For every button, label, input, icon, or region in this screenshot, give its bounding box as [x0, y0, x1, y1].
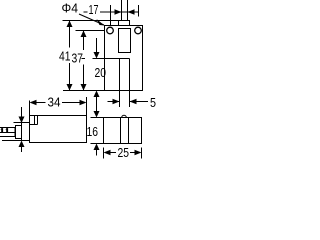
plunger pin right line — [127, 0, 129, 21]
svg-text:16: 16 — [87, 125, 99, 139]
dim 16 upper stem — [96, 104, 98, 113]
dim 41 upper stem — [69, 21, 71, 48]
dim 17 left arrow — [115, 9, 122, 14]
dash between phi4 and 17 — [84, 11, 88, 13]
dim 20 upper arrow — [94, 52, 100, 59]
dim 11 upper stem — [21, 107, 23, 119]
dim 25 right extension — [141, 148, 143, 159]
dim 25 left line — [110, 152, 116, 154]
dim 17 right arrow — [128, 9, 135, 14]
front view body — [105, 26, 143, 91]
dim 25 right arrow — [135, 150, 142, 155]
dim 34 right arrow — [80, 100, 87, 105]
dim 20 lower arrow — [94, 91, 100, 98]
upper slot window — [119, 29, 131, 53]
dim 34 left arrow — [30, 100, 37, 105]
dim 37 top arrow — [81, 31, 87, 38]
dim 11 lower stem — [21, 146, 23, 153]
dim 37 upper stem — [83, 31, 85, 51]
dim 34 right extension — [86, 97, 88, 123]
slot top extension dash near 37 — [82, 58, 86, 60]
dim 5 right line — [130, 101, 149, 103]
svg-text:Φ4: Φ4 — [62, 2, 79, 16]
svg-text:20: 20 — [95, 66, 107, 80]
dim 11 lower arrow — [19, 141, 25, 148]
side view window divider — [34, 116, 36, 125]
dim 41 lower stem — [69, 63, 71, 91]
svg-text:41: 41 — [59, 50, 71, 64]
svg-text:25: 25 — [118, 146, 130, 160]
dim 16 lower stem — [96, 149, 98, 156]
slot top extension line — [93, 58, 120, 60]
dim 16 bottom extension — [91, 143, 104, 145]
hole centerline extension — [76, 30, 105, 32]
dim 25 left arrow — [104, 150, 111, 155]
mounting hole right — [135, 27, 142, 34]
svg-text:37: 37 — [72, 52, 84, 66]
body bottom extension line — [63, 90, 105, 92]
dim 5 left line — [108, 101, 120, 103]
bottom view slot left line — [120, 118, 122, 144]
dim 34 left line — [36, 102, 46, 104]
svg-text:17: 17 — [89, 3, 99, 17]
plunger collar — [119, 21, 130, 26]
dim 11 bottom extension — [2, 140, 21, 142]
mounting hole left — [107, 27, 114, 34]
phi4 leader line — [79, 14, 104, 25]
dim 5 left arrow — [113, 99, 120, 104]
dim 41 top arrow — [67, 21, 73, 28]
side view window bottom line — [30, 124, 38, 126]
dim 25 right line — [130, 152, 135, 154]
side view body — [30, 116, 87, 143]
dim 5 right extension — [129, 91, 131, 108]
dim 17 left extension — [110, 5, 112, 26]
dim 16 top extension — [91, 117, 104, 119]
collar top extension line — [63, 20, 119, 22]
dim 34 left extension — [29, 101, 31, 116]
dim 5 right arrow — [130, 99, 137, 104]
plunger pin left line — [121, 0, 123, 21]
dim 25 left extension — [103, 148, 105, 159]
label 11 — [1, 128, 9, 132]
svg-text:5: 5 — [150, 96, 156, 110]
dim 20 lower stem — [96, 95, 98, 106]
dim 41 bottom arrow — [67, 84, 73, 91]
phi4 leader arrowhead — [97, 19, 105, 26]
dim 16 upper arrow — [94, 111, 100, 118]
dim 34 right line — [62, 102, 80, 104]
connector terminal box mid line — [0, 132, 15, 134]
svg-text:34: 34 — [48, 96, 61, 110]
connector plate — [22, 123, 30, 141]
connector terminal box — [0, 128, 15, 137]
lower slot top line — [120, 58, 130, 60]
bottom view dome — [122, 115, 127, 117]
side view window right line — [37, 116, 39, 125]
dim 17 line — [100, 11, 138, 13]
dim 37 bottom arrow — [81, 84, 87, 91]
bottom view slot right line — [128, 118, 130, 144]
dim 11 top extension — [14, 122, 22, 124]
bottom view body — [104, 118, 142, 144]
dim 20 upper stem — [96, 38, 98, 54]
connector collar — [16, 126, 22, 139]
dim 17 right extension — [138, 5, 140, 17]
lower slot right line — [129, 59, 131, 91]
dim 5 left extension — [119, 91, 121, 108]
dim 11 upper arrow — [19, 117, 25, 124]
dim 16 lower arrow — [94, 144, 100, 151]
dim 37 lower stem — [83, 65, 85, 91]
lower slot left line — [119, 59, 121, 91]
